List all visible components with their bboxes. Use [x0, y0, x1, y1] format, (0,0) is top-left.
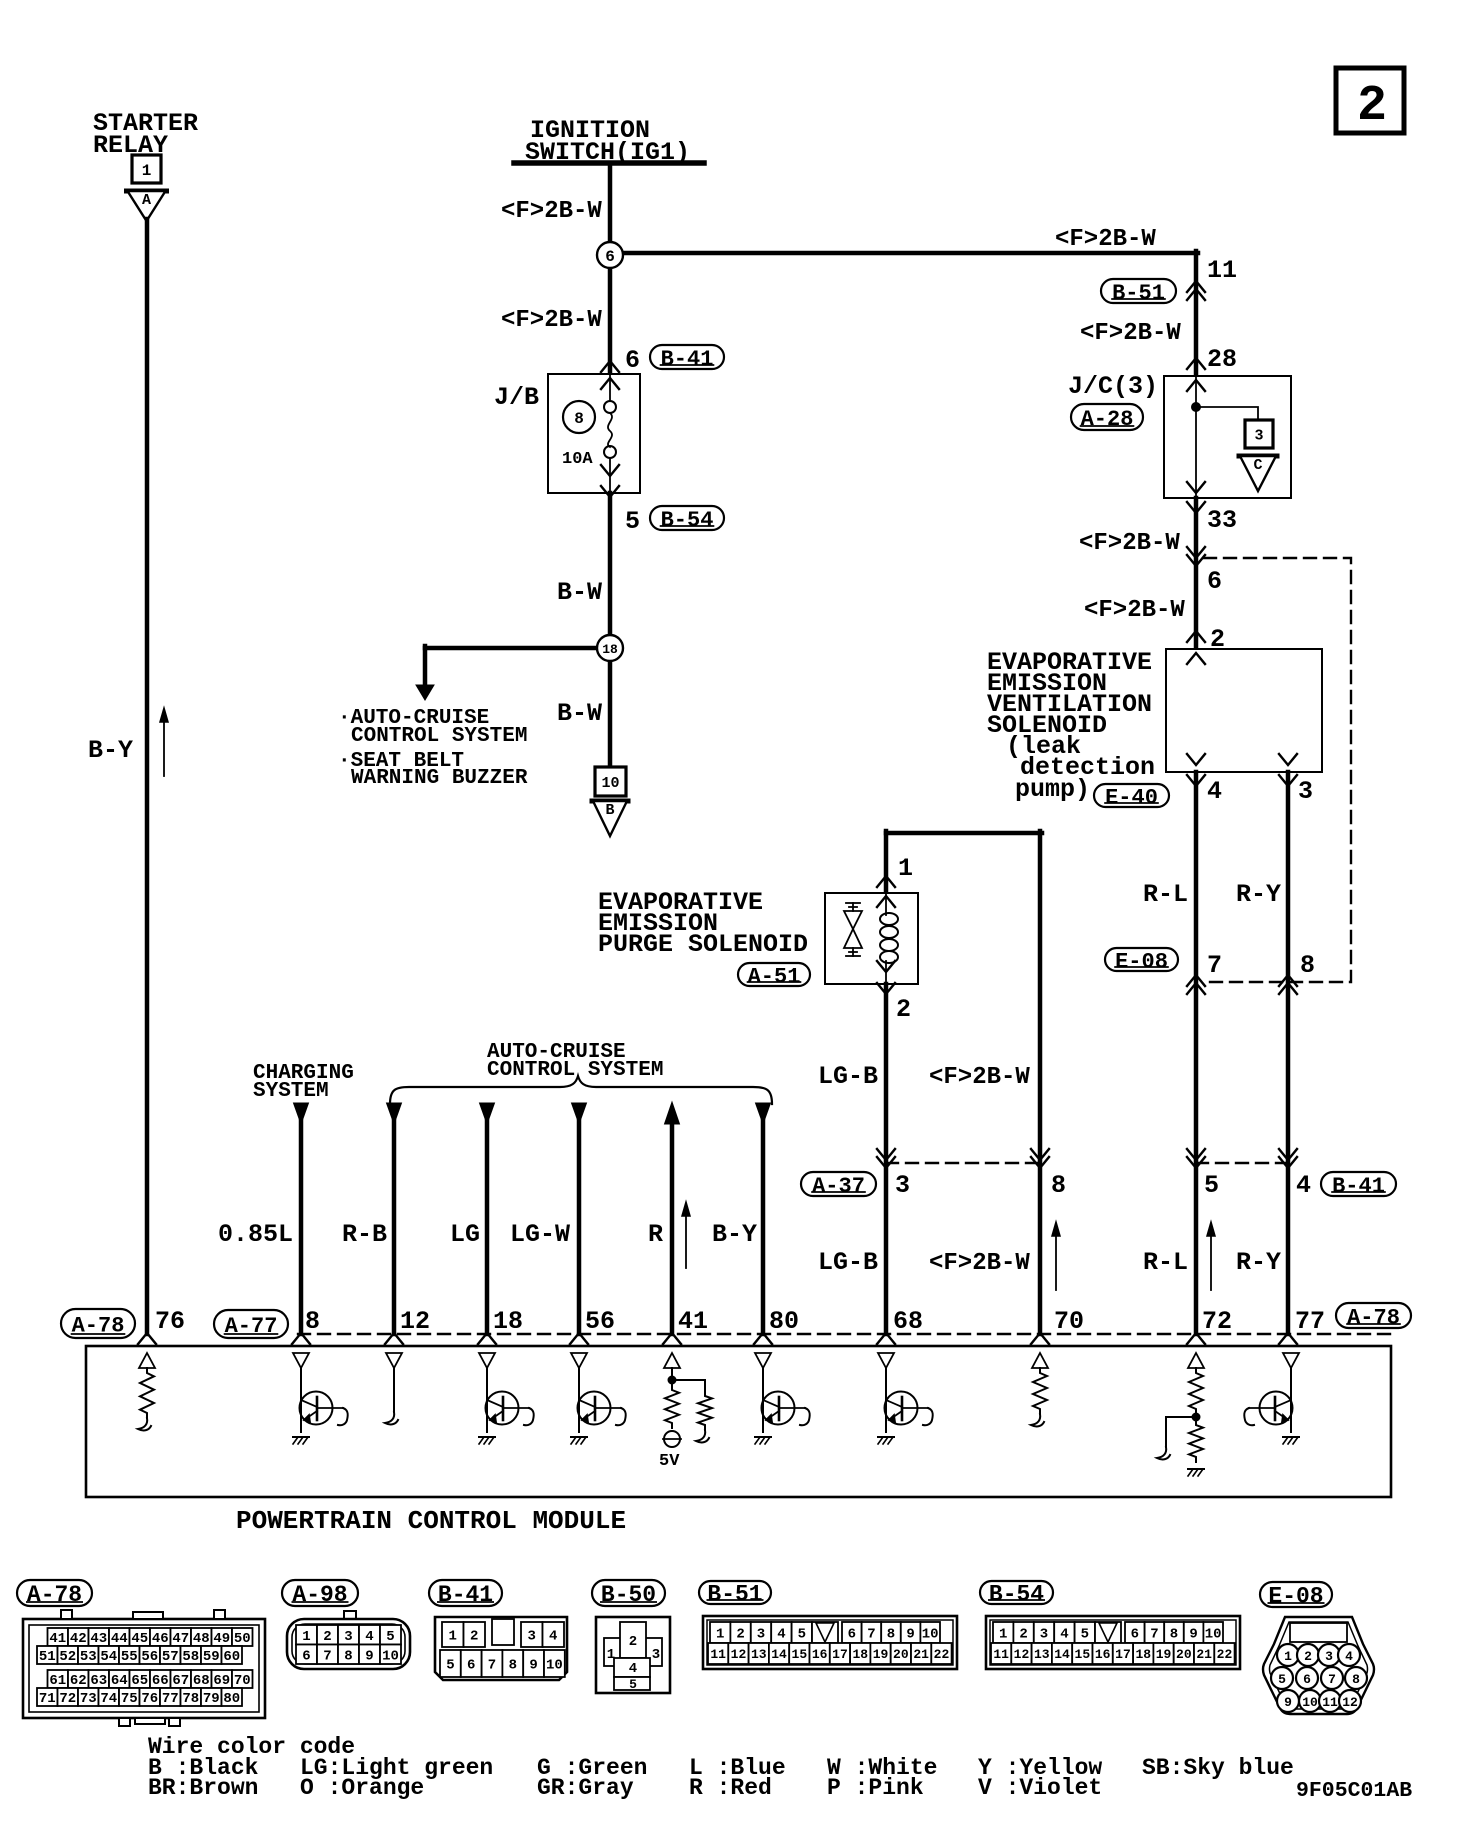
svg-text:12: 12	[400, 1307, 430, 1336]
label B-W upper	[557, 578, 602, 607]
pin 6 label dashed box	[1207, 567, 1222, 596]
svg-text:R: R	[648, 1220, 663, 1249]
svg-text:21: 21	[1196, 1647, 1212, 1662]
svg-text:5V: 5V	[659, 1452, 680, 1471]
svg-text:6: 6	[848, 1627, 856, 1643]
fuse 8 10A inside J/B	[562, 374, 616, 493]
dashed line at A-37 row	[886, 1162, 1041, 1164]
svg-text:66: 66	[152, 1673, 169, 1689]
svg-text:43: 43	[90, 1631, 107, 1647]
svg-text:6: 6	[605, 248, 615, 266]
connector B-54 pinout	[986, 1616, 1240, 1669]
svg-text:42: 42	[70, 1631, 87, 1647]
powertrain control module box	[86, 1346, 1391, 1497]
terminal box 10	[595, 767, 626, 796]
direction arrow on wire B-Y	[160, 708, 168, 776]
connector oval B-41 lower	[1321, 1172, 1396, 1199]
svg-text:8: 8	[574, 410, 584, 428]
svg-text:PURGE SOLENOID: PURGE SOLENOID	[598, 930, 808, 959]
svg-text:WARNING BUZZER: WARNING BUZZER	[351, 767, 528, 790]
pin 3 label	[1298, 777, 1313, 806]
triangle A	[127, 191, 167, 221]
double chevron R-L at B-41	[1187, 1149, 1205, 1168]
svg-text:77: 77	[1295, 1307, 1325, 1336]
svg-text:7: 7	[867, 1627, 875, 1643]
label auto-cruise / seat belt loads	[338, 707, 528, 790]
svg-text:SB:Sky blue: SB:Sky blue	[1142, 1755, 1294, 1781]
svg-text:69: 69	[213, 1673, 230, 1689]
chevrons out of purge solenoid	[877, 961, 895, 994]
svg-text:A: A	[142, 192, 151, 209]
wire B-W from J/B to node 18	[608, 493, 613, 648]
pin 5 label B-41	[1204, 1171, 1219, 1200]
svg-text:2: 2	[323, 1629, 331, 1645]
svg-text:LG-W: LG-W	[510, 1220, 570, 1249]
connector oval E-40	[1094, 784, 1169, 810]
svg-text:59: 59	[203, 1649, 220, 1665]
label STARTER RELAY	[93, 109, 198, 160]
PCM pin 70 pull-up resistor	[1031, 1353, 1048, 1426]
svg-text:5: 5	[629, 1677, 637, 1692]
svg-text:3: 3	[528, 1629, 536, 1645]
pin 3 label A-37	[895, 1171, 910, 1200]
svg-text:9: 9	[1284, 1695, 1292, 1710]
wire from node 6 to B-51 branch	[610, 251, 1198, 256]
svg-text:C: C	[1253, 457, 1262, 474]
svg-text:1: 1	[1284, 1649, 1292, 1664]
connector oval B-41 top	[650, 345, 724, 372]
svg-text:4: 4	[1345, 1649, 1353, 1664]
pin 33 label	[1207, 506, 1237, 535]
svg-text:4: 4	[549, 1629, 557, 1645]
svg-text:<F>2B-W: <F>2B-W	[1080, 320, 1181, 347]
svg-text:12: 12	[1342, 1695, 1358, 1710]
triangle C	[1239, 456, 1277, 491]
svg-text:R-B: R-B	[342, 1220, 387, 1249]
svg-text:61: 61	[49, 1673, 66, 1689]
svg-text:10: 10	[601, 775, 619, 792]
svg-text:9F05C01AB: 9F05C01AB	[1296, 1779, 1412, 1803]
PCM input pin 76 pull-up resistor	[138, 1353, 155, 1430]
connector oval B-54 top	[650, 506, 724, 533]
svg-text:3: 3	[1325, 1649, 1333, 1664]
svg-text:4: 4	[1296, 1171, 1311, 1200]
svg-text:LG: LG	[450, 1220, 480, 1249]
svg-text:SYSTEM: SYSTEM	[253, 1080, 329, 1103]
chevrons into vent solenoid	[1187, 631, 1205, 664]
pin 11 label	[1207, 256, 1237, 285]
svg-text:22: 22	[1217, 1647, 1233, 1662]
connector oval A-28	[1071, 404, 1143, 432]
svg-text:68: 68	[193, 1673, 210, 1689]
pin 6 label at J/B	[625, 346, 640, 375]
PCM pin 12 internal lead	[385, 1353, 402, 1424]
svg-text:18: 18	[602, 642, 618, 657]
svg-text:A-78: A-78	[1347, 1305, 1400, 1330]
svg-text:CONTROL SYSTEM: CONTROL SYSTEM	[351, 725, 527, 748]
svg-text:5: 5	[386, 1629, 394, 1645]
svg-text:20: 20	[893, 1647, 909, 1662]
svg-text:79: 79	[203, 1691, 220, 1707]
svg-text:GR:Gray: GR:Gray	[537, 1775, 634, 1801]
PCM output transistor Q pin 8	[293, 1353, 348, 1444]
svg-text:5: 5	[625, 507, 640, 536]
chevrons into purge solenoid	[877, 876, 895, 907]
direction arrow on R-L	[1207, 1222, 1215, 1290]
node 18 junction	[597, 635, 623, 767]
svg-text:78: 78	[182, 1691, 199, 1707]
svg-text:POWERTRAIN CONTROL MODULE: POWERTRAIN CONTROL MODULE	[236, 1506, 626, 1536]
svg-text:56: 56	[141, 1649, 158, 1665]
brace over auto-cruise wires	[390, 1076, 772, 1104]
svg-text:7: 7	[488, 1658, 496, 1674]
connector label oval B-41 bottom	[429, 1580, 502, 1608]
svg-text:E-08: E-08	[1115, 949, 1168, 974]
connector oval B-51 mid	[1101, 279, 1176, 306]
svg-text:67: 67	[172, 1673, 189, 1689]
svg-text:9: 9	[1189, 1627, 1197, 1643]
svg-text:3: 3	[652, 1647, 660, 1663]
label evaporative emission ventilation solenoid	[987, 648, 1155, 804]
svg-text:72: 72	[1202, 1307, 1232, 1336]
wire loop from purge solenoid pin 1	[886, 831, 1042, 1334]
chevrons into J/B	[601, 361, 619, 389]
direction arrow on 2B-W loop	[1052, 1222, 1060, 1290]
svg-text:<F>2B-W: <F>2B-W	[929, 1064, 1030, 1091]
svg-text:B-Y: B-Y	[88, 736, 133, 765]
connector oval A-37	[801, 1172, 876, 1199]
label R-L lower	[1143, 1248, 1188, 1277]
svg-text:B-W: B-W	[557, 699, 602, 728]
svg-text:47: 47	[172, 1631, 189, 1647]
svg-text:12: 12	[1014, 1647, 1030, 1662]
svg-text:5: 5	[446, 1658, 454, 1674]
svg-text:11: 11	[710, 1647, 726, 1662]
ignition switch bus bar	[514, 160, 704, 166]
svg-text:6: 6	[1207, 567, 1222, 596]
svg-text:1: 1	[449, 1629, 457, 1645]
connector A-98 pinout	[287, 1611, 410, 1669]
connector B-51 pinout	[703, 1616, 957, 1669]
svg-text:9: 9	[365, 1648, 373, 1664]
pin 8 label E-08	[1300, 951, 1315, 980]
connector oval A-78 left	[61, 1309, 135, 1338]
svg-text:6: 6	[625, 346, 640, 375]
svg-text:17: 17	[1115, 1647, 1131, 1662]
svg-text:B-51: B-51	[707, 1582, 762, 1608]
svg-text:19: 19	[873, 1647, 889, 1662]
svg-text:P :Pink: P :Pink	[827, 1775, 924, 1801]
connector label oval A-98 bottom	[282, 1580, 358, 1608]
label J/B	[494, 383, 539, 412]
double chevron R-L at E-08	[1187, 975, 1205, 994]
connector B-41 pinout	[435, 1617, 567, 1680]
svg-text:3: 3	[1040, 1627, 1048, 1643]
wire color code legend	[148, 1734, 1294, 1801]
chevrons out of vent solenoid pin 4	[1187, 754, 1205, 786]
label (F)2B-W below J/C	[1079, 530, 1180, 557]
double chevron LG-B at A-37	[877, 1149, 895, 1168]
svg-text:10: 10	[382, 1648, 399, 1664]
label IGNITION SWITCH(IG1)	[525, 116, 690, 167]
svg-text:56: 56	[585, 1307, 615, 1336]
label R	[648, 1220, 663, 1249]
svg-text:13: 13	[751, 1647, 767, 1662]
svg-text:10: 10	[1205, 1627, 1222, 1643]
label (F)2B-W loop upper	[929, 1064, 1030, 1091]
pin 5 label at J/B	[625, 507, 640, 536]
PCM pin numbers	[155, 1307, 1325, 1336]
connector oval E-08 mid	[1105, 948, 1178, 974]
double chevron 2B-W at A-37	[1031, 1149, 1049, 1168]
svg-text:68: 68	[893, 1307, 923, 1336]
direction arrow on R wire	[682, 1202, 690, 1268]
svg-text:7: 7	[1328, 1672, 1336, 1687]
svg-text:2: 2	[470, 1629, 478, 1645]
svg-text:4: 4	[365, 1629, 373, 1645]
svg-text:21: 21	[913, 1647, 929, 1662]
svg-text:B-51: B-51	[1112, 281, 1165, 306]
svg-text:B: B	[605, 802, 614, 819]
pin 28 label	[1207, 345, 1237, 374]
chevrons at PCM pins	[138, 1333, 1297, 1344]
pin 2 label vent solenoid	[1210, 625, 1225, 654]
wire R-L from vent solenoid to PCM pin 72	[1194, 772, 1199, 1334]
triangle B	[592, 801, 628, 836]
evaporative emission purge solenoid box	[825, 893, 918, 984]
svg-text:44: 44	[111, 1631, 128, 1647]
svg-text:<F>2B-W: <F>2B-W	[1079, 530, 1180, 557]
svg-text:pump): pump)	[1015, 775, 1090, 804]
PCM pin 41 5V reference divider	[659, 1353, 712, 1471]
PCM output transistor Q pin 56	[571, 1353, 626, 1444]
svg-text:E-40: E-40	[1105, 785, 1158, 810]
connector label oval B-50 bottom	[592, 1580, 665, 1608]
svg-text:4: 4	[629, 1661, 637, 1677]
svg-text:74: 74	[100, 1691, 117, 1707]
label B-Y bank	[712, 1220, 757, 1249]
svg-text:5: 5	[798, 1627, 806, 1643]
svg-text:6: 6	[302, 1648, 310, 1664]
svg-text:1: 1	[302, 1629, 310, 1645]
label B-W lower	[557, 699, 602, 728]
svg-text:R-Y: R-Y	[1236, 880, 1281, 909]
svg-text:80: 80	[769, 1307, 799, 1336]
connector oval A-78 right	[1336, 1303, 1411, 1330]
svg-text:2: 2	[736, 1627, 744, 1643]
svg-text:9: 9	[529, 1658, 537, 1674]
svg-text:V :Violet: V :Violet	[978, 1775, 1102, 1801]
svg-text:8: 8	[887, 1627, 895, 1643]
svg-text:1: 1	[999, 1627, 1007, 1643]
svg-text:28: 28	[1207, 345, 1237, 374]
svg-text:10A: 10A	[562, 450, 593, 469]
chevrons out of J/C(3)	[1187, 482, 1205, 513]
svg-text:8: 8	[1170, 1627, 1178, 1643]
dashed harness boundary E-40	[1204, 558, 1351, 982]
svg-text:J/C(3): J/C(3)	[1068, 372, 1158, 401]
svg-text:15: 15	[792, 1647, 808, 1662]
double chevron R-Y at B-41	[1279, 1149, 1297, 1168]
svg-text:73: 73	[80, 1691, 97, 1707]
label (F)2B-W below B-51	[1080, 320, 1181, 347]
svg-text:A-37: A-37	[812, 1174, 865, 1199]
svg-text:A-77: A-77	[225, 1314, 278, 1339]
svg-text:11: 11	[1322, 1695, 1338, 1710]
svg-text:B-50: B-50	[601, 1582, 656, 1608]
svg-text:0.85L: 0.85L	[218, 1220, 293, 1249]
wire B-Y from starter relay to PCM pin 76	[145, 219, 150, 1334]
svg-text:8: 8	[509, 1658, 517, 1674]
svg-text:A-28: A-28	[1081, 407, 1134, 432]
svg-text:76: 76	[155, 1307, 185, 1336]
svg-text:62: 62	[70, 1673, 87, 1689]
svg-text:60: 60	[223, 1649, 240, 1665]
svg-text:3: 3	[1298, 777, 1313, 806]
svg-text:CONTROL SYSTEM: CONTROL SYSTEM	[487, 1059, 663, 1082]
svg-text:17: 17	[832, 1647, 848, 1662]
pin 8 label A-37	[1051, 1171, 1066, 1200]
svg-text:B-41: B-41	[1332, 1174, 1385, 1199]
double chevron into dashed box	[1187, 547, 1205, 566]
svg-text:B-54: B-54	[989, 1582, 1044, 1608]
svg-text:57: 57	[162, 1649, 179, 1665]
chevrons out of J/B	[601, 465, 619, 497]
svg-text:12: 12	[731, 1647, 747, 1662]
dashed line PCM connector row	[298, 1333, 1391, 1335]
junction dot in J/C	[1192, 403, 1259, 421]
svg-text:3: 3	[1254, 427, 1263, 444]
svg-text:<F>2B-W: <F>2B-W	[1055, 226, 1156, 253]
svg-text:65: 65	[131, 1673, 148, 1689]
svg-text:14: 14	[771, 1647, 787, 1662]
svg-text:18: 18	[493, 1307, 523, 1336]
label LG-B upper	[818, 1062, 878, 1091]
PCM output transistor Q pin 18	[479, 1353, 534, 1444]
svg-text:B-41: B-41	[661, 347, 714, 372]
svg-text:18: 18	[1135, 1647, 1151, 1662]
svg-text:<F>2B-W: <F>2B-W	[501, 198, 602, 225]
svg-text:52: 52	[59, 1649, 76, 1665]
drawing number 9F05C01AB	[1296, 1779, 1412, 1803]
svg-text:6: 6	[467, 1658, 475, 1674]
svg-text:O :Orange: O :Orange	[300, 1775, 424, 1801]
svg-text:6: 6	[1303, 1672, 1311, 1687]
wire R to pin 41	[665, 1102, 680, 1334]
wire LG-B from purge solenoid	[884, 984, 889, 1334]
svg-text:22: 22	[934, 1647, 950, 1662]
starter relay box 1	[132, 155, 161, 183]
svg-text:19: 19	[1156, 1647, 1172, 1662]
junction connector J/C(3) box	[1164, 376, 1291, 498]
pin 7 label	[1207, 951, 1222, 980]
label B-Y	[88, 736, 133, 765]
svg-text:10: 10	[546, 1658, 563, 1674]
svg-text:2: 2	[1019, 1627, 1027, 1643]
svg-text:45: 45	[131, 1631, 148, 1647]
svg-text:4: 4	[777, 1627, 785, 1643]
svg-text:3: 3	[895, 1171, 910, 1200]
connector label oval B-54 bottom	[980, 1581, 1053, 1608]
label R-B	[342, 1220, 387, 1249]
svg-text:2: 2	[629, 1634, 637, 1650]
svg-text:53: 53	[80, 1649, 97, 1665]
svg-text:16: 16	[1095, 1647, 1111, 1662]
connector A-78 pinout	[23, 1610, 265, 1726]
svg-text:15: 15	[1075, 1647, 1091, 1662]
svg-text:<F>2B-W: <F>2B-W	[1084, 597, 1185, 624]
svg-text:B-W: B-W	[557, 578, 602, 607]
svg-text:54: 54	[100, 1649, 117, 1665]
wire down to J/C(3)	[1194, 251, 1199, 376]
svg-text:5: 5	[1278, 1672, 1286, 1687]
connector label oval A-78 bottom	[17, 1580, 92, 1608]
svg-text:1: 1	[142, 162, 152, 180]
pin 1 label purge	[898, 854, 913, 883]
svg-text:E-08: E-08	[1268, 1584, 1323, 1610]
svg-text:70: 70	[1054, 1307, 1084, 1336]
svg-text:48: 48	[193, 1631, 210, 1647]
svg-text:LG-B: LG-B	[818, 1248, 878, 1277]
svg-text:8: 8	[1051, 1171, 1066, 1200]
branch wire to auto-cruise loads	[416, 646, 612, 700]
purge solenoid coil	[880, 893, 898, 984]
PCM output transistor Q pin 80	[755, 1353, 810, 1444]
label (F)2B-W top right	[1055, 226, 1156, 253]
svg-text:58: 58	[182, 1649, 199, 1665]
junction block J/B box	[548, 374, 640, 493]
svg-text:7: 7	[1207, 951, 1222, 980]
svg-text:6: 6	[1131, 1627, 1139, 1643]
svg-text:76: 76	[141, 1691, 158, 1707]
dashed line at B-41 row	[1196, 1162, 1288, 1164]
label R-L upper	[1143, 880, 1188, 909]
chevrons into J/C(3)	[1187, 358, 1205, 391]
svg-text:63: 63	[90, 1673, 107, 1689]
wire R-B to pin 12	[387, 1103, 402, 1334]
wire from J/C to ventilation solenoid	[1194, 498, 1199, 651]
purge solenoid valve symbol	[844, 903, 862, 956]
svg-text:11: 11	[993, 1647, 1009, 1662]
node 6 junction	[597, 242, 623, 375]
evaporative emission ventilation solenoid box	[1166, 649, 1322, 772]
svg-text:1: 1	[716, 1627, 724, 1643]
svg-text:80: 80	[223, 1691, 240, 1707]
svg-text:77: 77	[162, 1691, 179, 1707]
svg-text:51: 51	[39, 1649, 56, 1665]
svg-text:72: 72	[59, 1691, 76, 1707]
PCM output transistor Q pin 68	[878, 1353, 933, 1444]
pin 4 label B-41	[1296, 1171, 1311, 1200]
connector E-08 pinout	[1263, 1617, 1374, 1714]
svg-text:LG-B: LG-B	[818, 1062, 878, 1091]
chevrons out of vent solenoid pin 3	[1279, 754, 1297, 786]
terminal box 3 in J/C	[1245, 420, 1273, 448]
pin 2 label purge	[896, 995, 911, 1024]
label POWERTRAIN CONTROL MODULE	[236, 1506, 626, 1536]
svg-text:33: 33	[1207, 506, 1237, 535]
svg-text:14: 14	[1054, 1647, 1070, 1662]
wire IG1 feed down to node 6	[608, 163, 613, 255]
wire LG to pin 18	[480, 1103, 495, 1334]
svg-text:BR:Brown: BR:Brown	[148, 1775, 258, 1801]
svg-text:<F>2B-W: <F>2B-W	[929, 1250, 1030, 1277]
svg-text:2: 2	[1304, 1649, 1312, 1664]
pin 4 label	[1207, 777, 1222, 806]
svg-text:64: 64	[111, 1673, 128, 1689]
svg-text:5: 5	[1081, 1627, 1089, 1643]
svg-text:55: 55	[121, 1649, 138, 1665]
